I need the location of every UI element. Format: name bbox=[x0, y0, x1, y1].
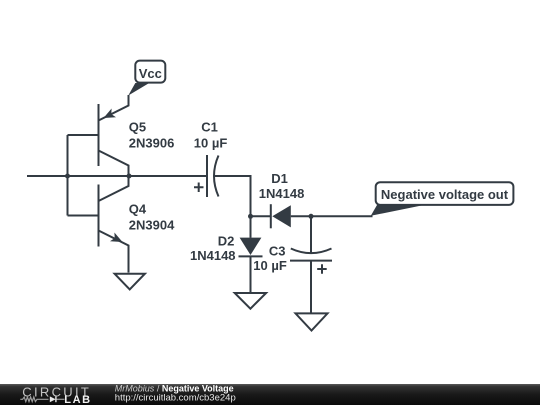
ground under C3 bbox=[296, 313, 328, 330]
value 1N4148 (D2) bbox=[190, 248, 236, 263]
value 10 uF (C3) bbox=[253, 258, 287, 273]
net label Vcc bbox=[128, 61, 165, 96]
label D2 bbox=[218, 234, 235, 249]
svg-text:Negative voltage out: Negative voltage out bbox=[381, 187, 509, 202]
label C3 bbox=[269, 244, 286, 259]
wire: output to label bbox=[311, 215, 373, 217]
svg-text:2N3904: 2N3904 bbox=[129, 218, 175, 233]
net label Negative voltage out bbox=[371, 182, 514, 216]
ground under D2 bbox=[235, 293, 266, 309]
label C1 bbox=[201, 120, 218, 135]
label Q4 bbox=[129, 202, 147, 217]
diode D2 (1N4148, cathode down) bbox=[239, 216, 263, 293]
transistor Q5 (PNP 2N3906) bbox=[99, 95, 129, 176]
junction: collector output node dot bbox=[127, 174, 132, 179]
wire: base bus vertical bbox=[67, 135, 69, 216]
CircuitLab logo wordmark bbox=[20, 384, 91, 405]
svg-text:C1: C1 bbox=[201, 120, 218, 135]
junction: D1/D2 node dot bbox=[248, 214, 253, 219]
capacitor C1 (polarized 10uF) bbox=[194, 155, 219, 197]
label D1 bbox=[271, 171, 288, 186]
svg-text:D1: D1 bbox=[271, 171, 288, 186]
svg-text:2N3906: 2N3906 bbox=[129, 136, 175, 151]
wire: Q5 base stub bbox=[68, 134, 99, 136]
svg-text:Vcc: Vcc bbox=[139, 66, 162, 81]
svg-text:10 µF: 10 µF bbox=[194, 136, 228, 151]
wire: input rail bbox=[27, 175, 207, 177]
footer credit line 2 bbox=[115, 392, 236, 403]
value 2N3904 bbox=[129, 218, 175, 233]
svg-text:1N4148: 1N4148 bbox=[190, 248, 236, 263]
value 10 uF bbox=[194, 136, 228, 151]
label Q5 bbox=[129, 120, 146, 135]
capacitor C3 (polarized 10uF, vertical) bbox=[290, 216, 332, 312]
value 1N4148 bbox=[259, 186, 305, 201]
svg-text:1N4148: 1N4148 bbox=[259, 186, 305, 201]
svg-text:D2: D2 bbox=[218, 234, 235, 249]
junction: input/base node dot bbox=[65, 174, 70, 179]
svg-text:LAB: LAB bbox=[64, 394, 91, 405]
footer bar bbox=[0, 384, 540, 405]
svg-text:Q4: Q4 bbox=[129, 202, 147, 217]
value 2N3906 bbox=[129, 136, 175, 151]
svg-text:http://circuitlab.com/cb3e24p: http://circuitlab.com/cb3e24p bbox=[115, 392, 236, 403]
wire: Q4 base stub bbox=[68, 215, 99, 217]
svg-text:Q5: Q5 bbox=[129, 120, 146, 135]
svg-text:10 µF: 10 µF bbox=[253, 258, 287, 273]
footer credit line 1 bbox=[115, 384, 234, 394]
junction: output node dot bbox=[309, 214, 314, 219]
svg-text:C3: C3 bbox=[269, 244, 286, 259]
transistor Q4 (NPN 2N3904) bbox=[99, 176, 129, 273]
wire: C1 to diode junction bbox=[214, 176, 250, 216]
ground under Q4 emitter bbox=[115, 274, 145, 290]
diode D1 (1N4148, cathode left) bbox=[251, 204, 312, 228]
